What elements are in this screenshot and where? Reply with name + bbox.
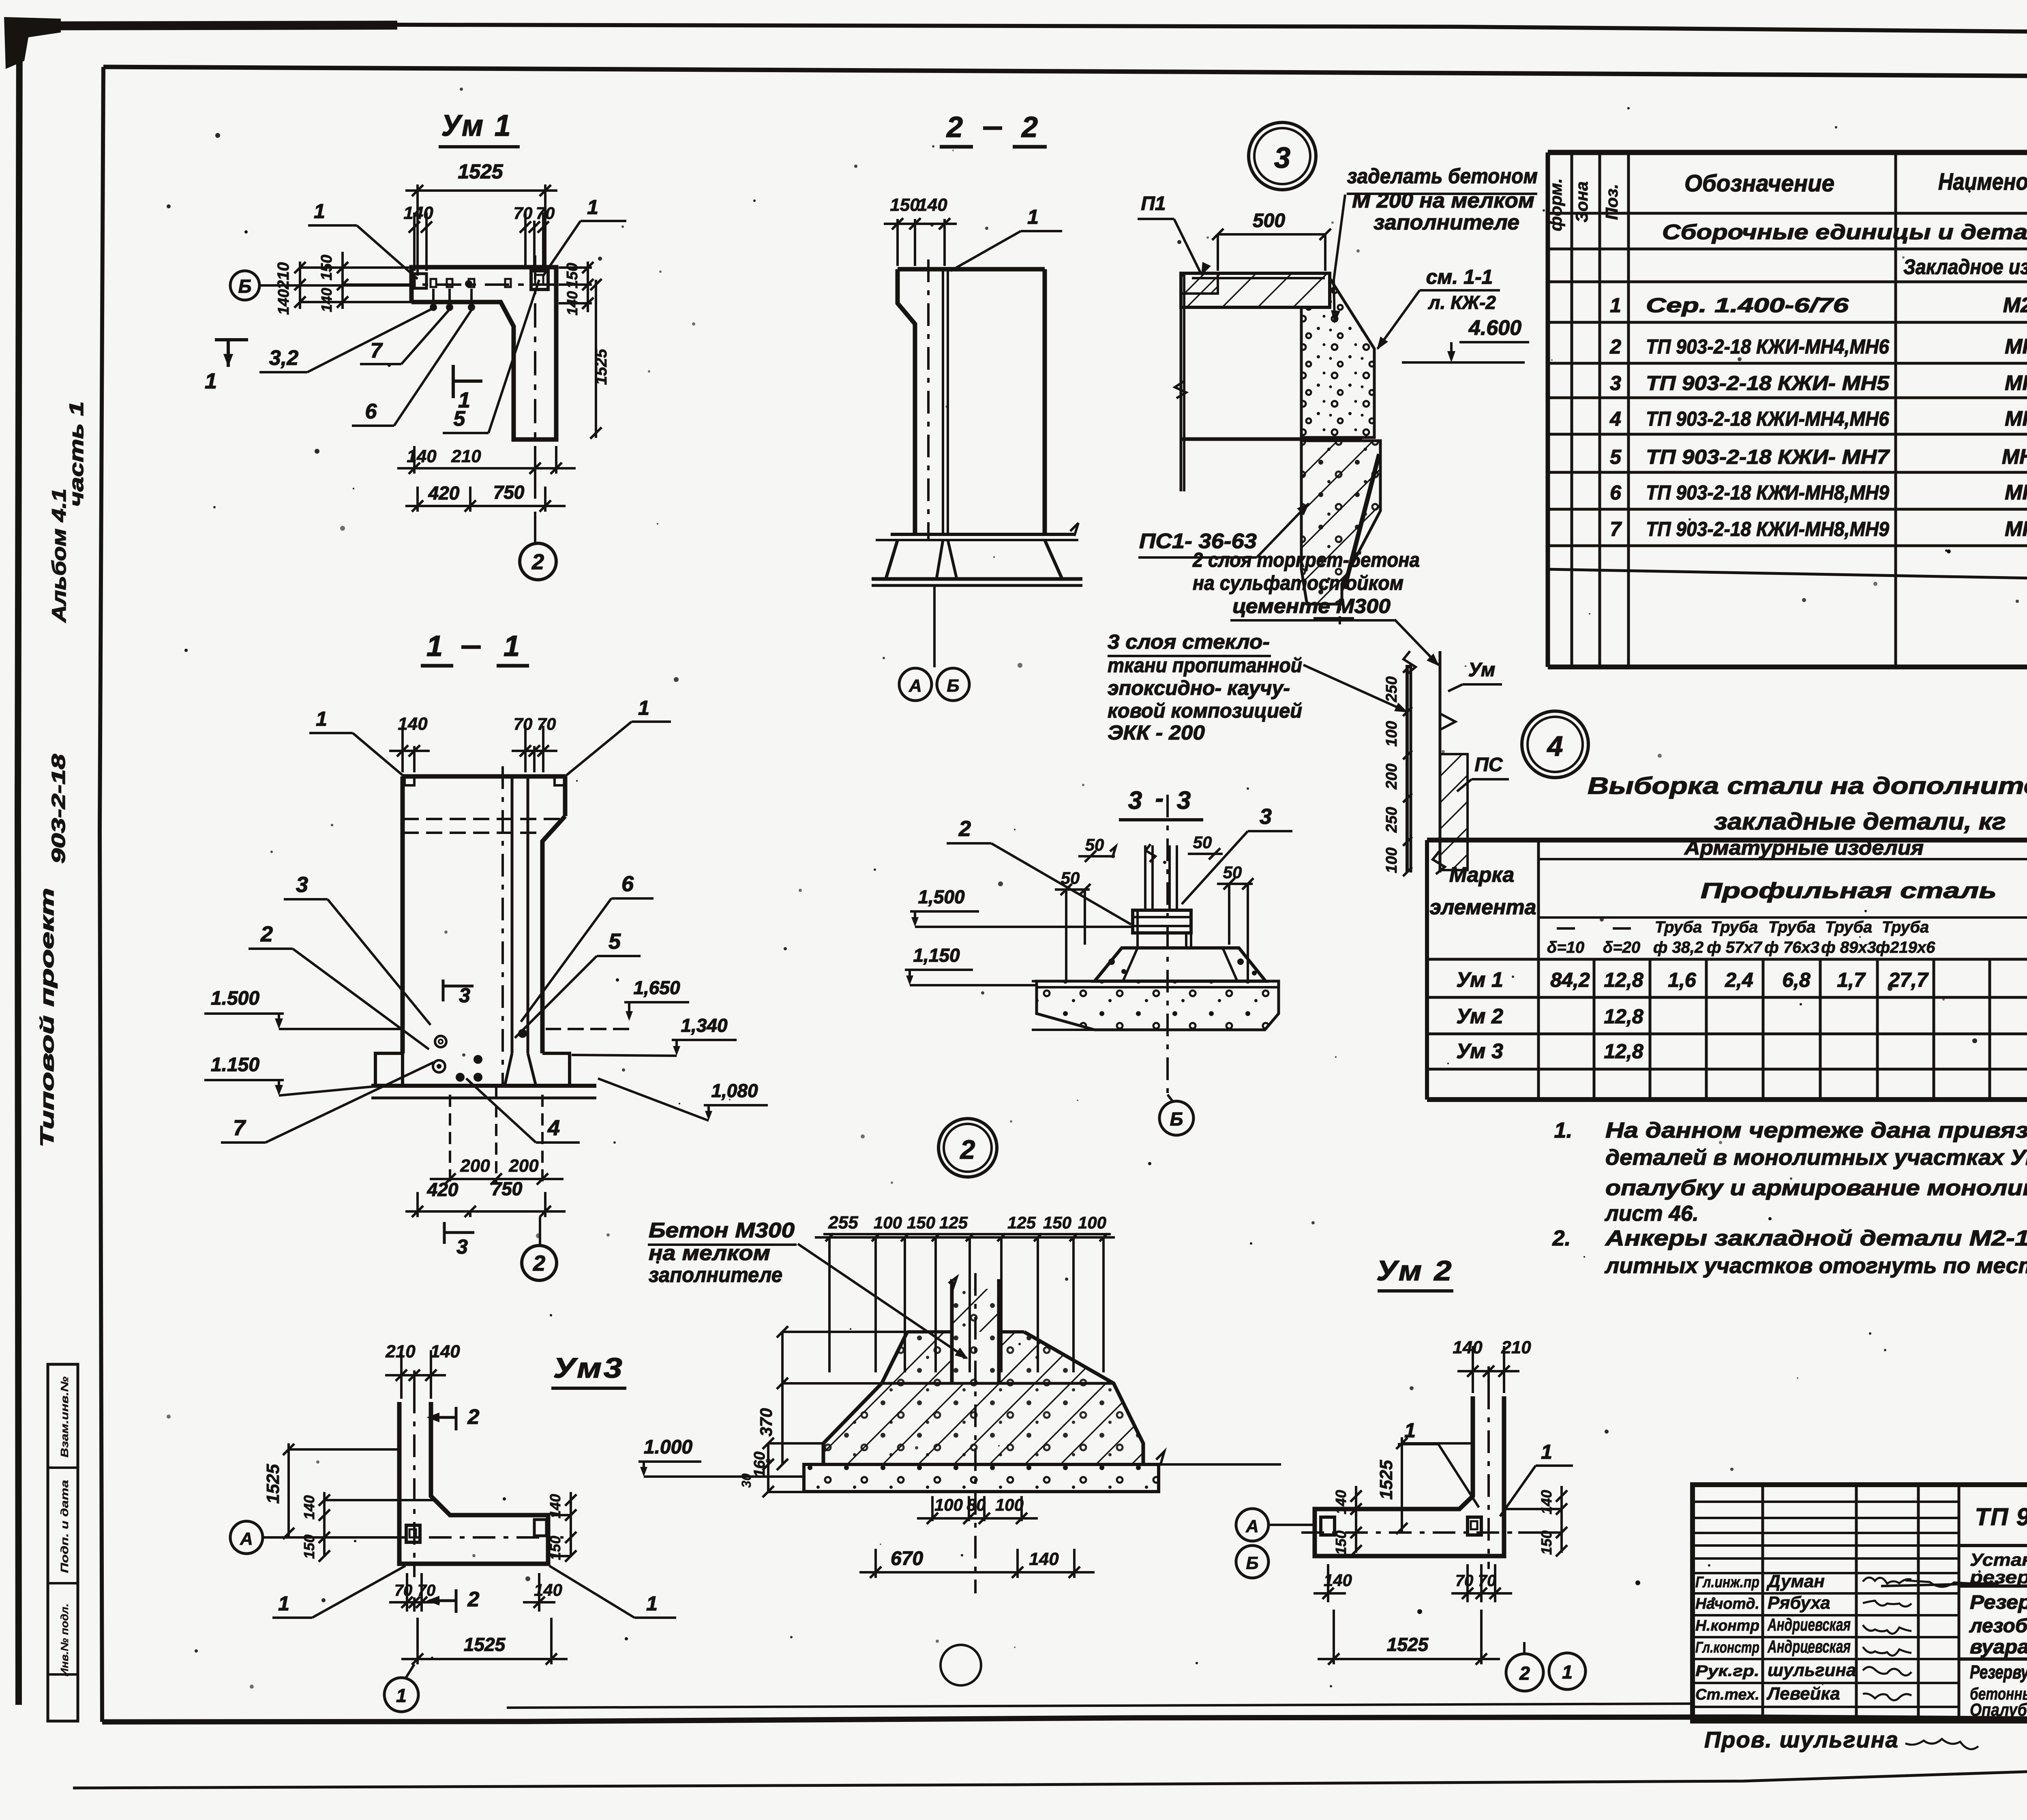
svg-text:4.600: 4.600 [1468, 316, 1521, 340]
svg-text:1: 1 [1541, 1441, 1552, 1463]
svg-text:5: 5 [1610, 446, 1622, 468]
svg-text:1,150: 1,150 [913, 945, 960, 966]
svg-text:1: 1 [458, 388, 470, 412]
svg-text:3: 3 [456, 1235, 468, 1258]
svg-text:2.: 2. [1552, 1226, 1571, 1250]
svg-text:1525: 1525 [458, 160, 503, 183]
svg-text:670: 670 [891, 1548, 923, 1569]
svg-text:Резервуар мазута железо-: Резервуар мазута железо- [1970, 1661, 2027, 1683]
svg-text:Выборка стали на дополнител: Выборка стали на дополнительные [1588, 773, 2027, 799]
svg-text:1.150: 1.150 [211, 1054, 259, 1076]
svg-text:2: 2 [960, 1134, 975, 1164]
svg-text:Труба: Труба [1768, 918, 1816, 936]
svg-text:3: 3 [296, 872, 308, 897]
svg-text:На данном чертеже дана при: На данном чертеже дана привязка дополнит… [1605, 1118, 2027, 1143]
svg-text:250: 250 [1383, 676, 1400, 702]
svg-text:2: 2 [467, 1405, 480, 1429]
svg-text:δ=10: δ=10 [1547, 939, 1584, 956]
svg-text:6: 6 [1610, 481, 1622, 504]
svg-text:1,650: 1,650 [633, 977, 680, 998]
svg-text:100: 100 [934, 1495, 963, 1514]
svg-text:210: 210 [385, 1342, 416, 1361]
svg-text:1: 1 [316, 707, 327, 730]
svg-text:1: 1 [426, 630, 443, 662]
svg-text:100: 100 [1078, 1213, 1106, 1232]
svg-text:2: 2 [946, 111, 963, 144]
svg-text:100: 100 [874, 1213, 902, 1232]
svg-text:Гл.констр: Гл.констр [1695, 1639, 1759, 1656]
svg-text:Сборочные единицы и детали: Сборочные единицы и детали [1662, 221, 2027, 244]
svg-text:3: 3 [459, 984, 470, 1007]
svg-text:140: 140 [1324, 1571, 1352, 1590]
svg-text:1525: 1525 [1376, 1460, 1396, 1500]
svg-text:МН4: МН4 [2005, 335, 2027, 358]
svg-text:6,8: 6,8 [1782, 969, 1811, 991]
svg-text:1.: 1. [1554, 1118, 1572, 1143]
svg-text:7: 7 [371, 339, 383, 362]
svg-text:750: 750 [493, 482, 525, 503]
svg-text:Опалубка. Углы „2” ÷ „4”: Опалубка. Углы „2” ÷ „4” [1970, 1700, 2027, 1720]
svg-text:вуарами 2 х 100 м³: вуарами 2 х 100 м³ [1970, 1636, 2027, 1658]
svg-text:1,6: 1,6 [1668, 969, 1697, 991]
svg-text:1: 1 [314, 200, 325, 223]
svg-text:Труба: Труба [1655, 918, 1702, 936]
svg-text:6: 6 [365, 400, 377, 423]
svg-text:2: 2 [260, 922, 273, 946]
svg-text:ТП 903-2-18 КЖИ- МН5: ТП 903-2-18 КЖИ- МН5 [1646, 372, 1890, 394]
svg-text:закладные детали, кг: закладные детали, кг [1714, 808, 2006, 835]
svg-text:140: 140 [1333, 1490, 1349, 1514]
svg-text:750: 750 [491, 1178, 523, 1199]
svg-text:12,8: 12,8 [1604, 969, 1643, 991]
svg-text:2: 2 [1519, 1663, 1530, 1684]
svg-text:Труба: Труба [1882, 918, 1929, 936]
svg-text:Думан: Думан [1766, 1571, 1825, 1591]
svg-text:140: 140 [275, 289, 292, 315]
svg-text:70: 70 [514, 714, 533, 733]
svg-text:3,2: 3,2 [269, 346, 298, 370]
svg-text:ф 89х3: ф 89х3 [1821, 939, 1876, 956]
svg-text:ТП 903-2- 18: ТП 903-2- 18 [1975, 1503, 2027, 1531]
svg-text:Труба: Труба [1711, 918, 1758, 936]
svg-text:опалубку и армирование моно: опалубку и армирование монолитных углов … [1605, 1176, 2027, 1200]
svg-text:1: 1 [1404, 1419, 1416, 1442]
svg-text:1525: 1525 [263, 1464, 283, 1504]
svg-text:140: 140 [430, 1342, 460, 1361]
svg-text:лезобетонными резер-: лезобетонными резер- [1969, 1615, 2027, 1637]
svg-text:Левейка: Левейка [1766, 1684, 1840, 1704]
svg-text:150: 150 [1333, 1531, 1349, 1555]
svg-text:Гл.инж.пр: Гл.инж.пр [1695, 1574, 1759, 1591]
svg-text:1.500: 1.500 [211, 988, 259, 1009]
svg-text:3: 3 [1128, 787, 1142, 815]
svg-text:заполнителе: заполнителе [1373, 211, 1519, 234]
svg-text:ТП 903-2-18 КЖИ-МН4,МН6: ТП 903-2-18 КЖИ-МН4,МН6 [1646, 407, 1890, 430]
svg-text:4: 4 [1547, 730, 1563, 762]
svg-text:140: 140 [1029, 1549, 1059, 1569]
svg-text:2: 2 [1609, 335, 1621, 358]
svg-text:-: - [1155, 785, 1164, 812]
svg-text:МН 7: МН 7 [2002, 445, 2027, 469]
svg-text:Бетон М300: Бетон М300 [649, 1219, 795, 1242]
svg-text:литных участков отогнуть: литных участков отогнуть по месту. [1604, 1254, 2027, 1278]
svg-text:210: 210 [1501, 1338, 1531, 1357]
svg-text:70: 70 [418, 1582, 436, 1599]
svg-text:140: 140 [1453, 1338, 1483, 1357]
svg-text:1: 1 [638, 697, 649, 719]
svg-text:Начотд.: Начотд. [1695, 1595, 1759, 1612]
svg-text:Ст.тех.: Ст.тех. [1695, 1686, 1759, 1703]
svg-text:А: А [240, 1529, 253, 1549]
svg-text:500: 500 [1253, 210, 1285, 232]
svg-text:Ум 3: Ум 3 [1456, 1040, 1503, 1063]
svg-text:140: 140 [403, 203, 433, 223]
svg-text:100: 100 [1383, 721, 1400, 746]
svg-text:ТП 903-2-18 КЖИ- МН7: ТП 903-2-18 КЖИ- МН7 [1646, 446, 1890, 468]
svg-text:125: 125 [939, 1213, 968, 1232]
svg-text:70: 70 [536, 204, 555, 223]
svg-text:элемента: элемента [1429, 896, 1536, 919]
svg-text:Рук.гр.: Рук.гр. [1695, 1663, 1759, 1680]
svg-text:1.000: 1.000 [644, 1436, 692, 1458]
svg-text:3: 3 [1610, 372, 1621, 394]
svg-text:80: 80 [967, 1495, 986, 1514]
svg-text:1: 1 [1027, 206, 1039, 228]
svg-text:420: 420 [428, 482, 460, 504]
svg-text:Альбом 4.1: Альбом 4.1 [49, 489, 70, 623]
svg-text:ковой композицией: ковой композицией [1108, 699, 1302, 722]
svg-text:П1: П1 [1141, 193, 1166, 214]
svg-text:70: 70 [1478, 1572, 1496, 1590]
svg-text:12,8: 12,8 [1604, 1040, 1643, 1063]
svg-text:М 200 на мелком: М 200 на мелком [1352, 189, 1534, 212]
svg-text:δ=20: δ=20 [1603, 939, 1640, 956]
svg-text:140: 140 [398, 714, 428, 734]
svg-text:Закладное изделие: Закладное изделие [1903, 255, 2027, 279]
svg-text:50: 50 [1193, 833, 1212, 852]
svg-text:200: 200 [508, 1156, 539, 1176]
svg-text:цементе М300: цементе М300 [1232, 595, 1391, 617]
svg-text:А: А [909, 676, 922, 696]
svg-text:Ум 2: Ум 2 [1456, 1005, 1503, 1028]
svg-text:3: 3 [1260, 804, 1272, 829]
svg-text:ТП 903-2-18 КЖИ-МН8,МН9: ТП 903-2-18 КЖИ-МН8,МН9 [1646, 518, 1889, 540]
svg-text:4: 4 [547, 1116, 560, 1140]
svg-text:3: 3 [1274, 142, 1290, 174]
svg-text:Обозначение: Обозначение [1684, 170, 1834, 197]
svg-text:160: 160 [751, 1451, 768, 1477]
svg-text:903-2-18: 903-2-18 [48, 754, 69, 864]
svg-text:3: 3 [1177, 787, 1191, 815]
svg-text:2,4: 2,4 [1725, 969, 1753, 991]
svg-text:2: 2 [467, 1588, 480, 1611]
svg-text:А: А [1245, 1516, 1259, 1536]
svg-text:Рябуха: Рябуха [1768, 1593, 1830, 1613]
svg-text:3 слоя стекло-: 3 слоя стекло- [1108, 630, 1270, 653]
svg-text:140: 140 [407, 446, 437, 466]
svg-text:Профильная сталь: Профильная сталь [1701, 879, 1997, 903]
svg-text:1: 1 [1562, 1661, 1573, 1683]
svg-text:Ум 1: Ум 1 [441, 109, 512, 142]
svg-text:ткани пропитанной: ткани пропитанной [1108, 654, 1302, 677]
svg-text:Ум3: Ум3 [553, 1352, 624, 1384]
svg-text:лист 46.: лист 46. [1604, 1201, 1699, 1226]
svg-text:100: 100 [1383, 847, 1400, 873]
svg-text:2: 2 [533, 1251, 545, 1276]
svg-text:МН6: МН6 [2005, 407, 2027, 431]
svg-text:Установка мазутоснабжения Q=3,: Установка мазутоснабжения Q=3,25 и 6,5 м… [1970, 1550, 2027, 1570]
svg-text:Б: Б [1246, 1553, 1258, 1573]
svg-text:Подп. и дата: Подп. и дата [58, 1480, 71, 1573]
svg-text:2: 2 [1021, 111, 1038, 144]
svg-text:70: 70 [537, 714, 556, 733]
svg-text:ф 38,2: ф 38,2 [1653, 939, 1703, 956]
svg-text:Взам.инв.№: Взам.инв.№ [58, 1376, 71, 1458]
svg-text:шульгина: шульгина [1768, 1660, 1856, 1680]
svg-text:1: 1 [1610, 294, 1621, 317]
svg-text:150: 150 [1043, 1213, 1071, 1232]
svg-text:210: 210 [274, 262, 292, 290]
svg-text:1525: 1525 [1387, 1634, 1429, 1655]
svg-text:7: 7 [1610, 518, 1622, 540]
svg-text:Ум 2: Ум 2 [1376, 1255, 1453, 1286]
svg-text:420: 420 [427, 1179, 459, 1200]
svg-text:М2-1: М2-1 [2003, 294, 2027, 317]
svg-text:1: 1 [587, 196, 598, 219]
svg-text:5: 5 [609, 929, 621, 954]
svg-text:150: 150 [301, 1535, 317, 1559]
svg-text:форм.: форм. [1546, 178, 1565, 232]
svg-text:л. КЖ-2: л. КЖ-2 [1428, 292, 1496, 313]
svg-text:Типовой проект: Типовой проект [36, 888, 58, 1147]
svg-text:12,8: 12,8 [1604, 1005, 1643, 1028]
svg-text:ф 76х3: ф 76х3 [1764, 939, 1819, 956]
svg-text:150: 150 [890, 195, 920, 215]
svg-text:заполнителе: заполнителе [649, 1263, 782, 1287]
svg-text:Арматурные изделия: Арматурные изделия [1684, 836, 1924, 859]
svg-text:Резервуарный парк с же-: Резервуарный парк с же- [1970, 1592, 2027, 1613]
svg-text:ТП 903-2-18 КЖИ-МН4,МН6: ТП 903-2-18 КЖИ-МН4,МН6 [1646, 335, 1890, 358]
svg-text:140: 140 [301, 1495, 317, 1520]
svg-text:1525: 1525 [464, 1634, 506, 1655]
svg-text:1,500: 1,500 [918, 886, 965, 907]
svg-text:70: 70 [1455, 1572, 1474, 1590]
svg-text:МН8: МН8 [2005, 481, 2027, 504]
svg-text:Б: Б [1170, 1108, 1183, 1130]
svg-text:ЭКК - 200: ЭКК - 200 [1108, 721, 1205, 744]
svg-text:7: 7 [233, 1116, 246, 1140]
svg-text:150: 150 [1538, 1531, 1555, 1555]
svg-text:2 слоя торкрет-бетона: 2 слоя торкрет-бетона [1192, 549, 1420, 571]
svg-text:Андриевская: Андриевская [1767, 1637, 1851, 1657]
svg-text:1: 1 [504, 630, 520, 662]
svg-text:1,080: 1,080 [711, 1080, 758, 1101]
svg-text:Сер. 1.400-6/76: Сер. 1.400-6/76 [1646, 294, 1849, 317]
svg-text:Ум: Ум [1468, 659, 1496, 681]
svg-text:250: 250 [1383, 807, 1400, 833]
svg-text:140: 140 [318, 288, 335, 312]
svg-text:140: 140 [917, 195, 947, 215]
svg-text:1: 1 [278, 1592, 289, 1615]
svg-text:ТП 903-2-18 КЖИ-МН8,МН9: ТП 903-2-18 КЖИ-МН8,МН9 [1646, 481, 1889, 504]
svg-text:1,340: 1,340 [681, 1015, 728, 1036]
svg-text:МН9: МН9 [2005, 517, 2027, 541]
svg-text:заделать бетоном: заделать бетоном [1347, 165, 1538, 188]
svg-text:ф 57х7: ф 57х7 [1707, 939, 1762, 956]
svg-text:27,7: 27,7 [1888, 969, 1929, 991]
svg-text:на сульфатостойком: на сульфатостойком [1193, 572, 1403, 594]
svg-text:деталей в монолитных участк: деталей в монолитных участках Ум 1 ÷ Ум … [1605, 1145, 2027, 1170]
svg-text:255: 255 [828, 1213, 858, 1233]
svg-text:140: 140 [1538, 1490, 1555, 1514]
svg-text:Инв.№ подл.: Инв.№ подл. [58, 1603, 71, 1676]
svg-text:Наименование: Наименование [1938, 169, 2027, 195]
svg-text:4: 4 [1609, 407, 1621, 430]
svg-text:6: 6 [621, 872, 634, 896]
svg-text:2: 2 [958, 817, 971, 841]
svg-text:ПС: ПС [1474, 754, 1503, 776]
svg-text:Н.контр: Н.контр [1695, 1617, 1759, 1634]
svg-text:200: 200 [1383, 763, 1400, 789]
svg-text:1,7: 1,7 [1837, 969, 1866, 991]
svg-text:370: 370 [756, 1408, 776, 1436]
svg-text:Пров. шульгина: Пров. шульгина [1704, 1727, 1899, 1752]
svg-text:Зона: Зона [1572, 181, 1591, 222]
svg-text:Анкеры закладной детали М: Анкеры закладной детали М2-1 попадающие … [1605, 1226, 2027, 1250]
svg-text:125: 125 [1007, 1213, 1036, 1232]
svg-text:100: 100 [995, 1495, 1024, 1514]
svg-text:Андриевская: Андриевская [1767, 1615, 1851, 1635]
svg-text:1: 1 [205, 369, 217, 393]
svg-text:Б: Б [947, 676, 959, 696]
svg-text:210: 210 [451, 446, 481, 466]
svg-text:2: 2 [531, 550, 544, 574]
svg-text:84,2: 84,2 [1550, 969, 1590, 991]
svg-text:70: 70 [394, 1582, 413, 1599]
svg-text:Б: Б [238, 276, 252, 297]
svg-text:ф219х6: ф219х6 [1876, 939, 1935, 956]
svg-text:МН5: МН5 [2005, 371, 2027, 395]
svg-text:см. 1-1: см. 1-1 [1426, 266, 1493, 288]
svg-text:140: 140 [534, 1580, 562, 1599]
svg-text:Ум 1: Ум 1 [1456, 968, 1503, 992]
svg-text:Труба: Труба [1825, 918, 1873, 936]
svg-text:эпоксидно- каучу-: эпоксидно- каучу- [1108, 677, 1290, 699]
svg-text:200: 200 [460, 1156, 490, 1176]
svg-text:1: 1 [396, 1685, 407, 1706]
svg-text:Поз.: Поз. [1602, 184, 1621, 220]
svg-text:150: 150 [907, 1213, 935, 1232]
svg-text:1: 1 [646, 1592, 658, 1615]
svg-text:70: 70 [514, 204, 533, 223]
